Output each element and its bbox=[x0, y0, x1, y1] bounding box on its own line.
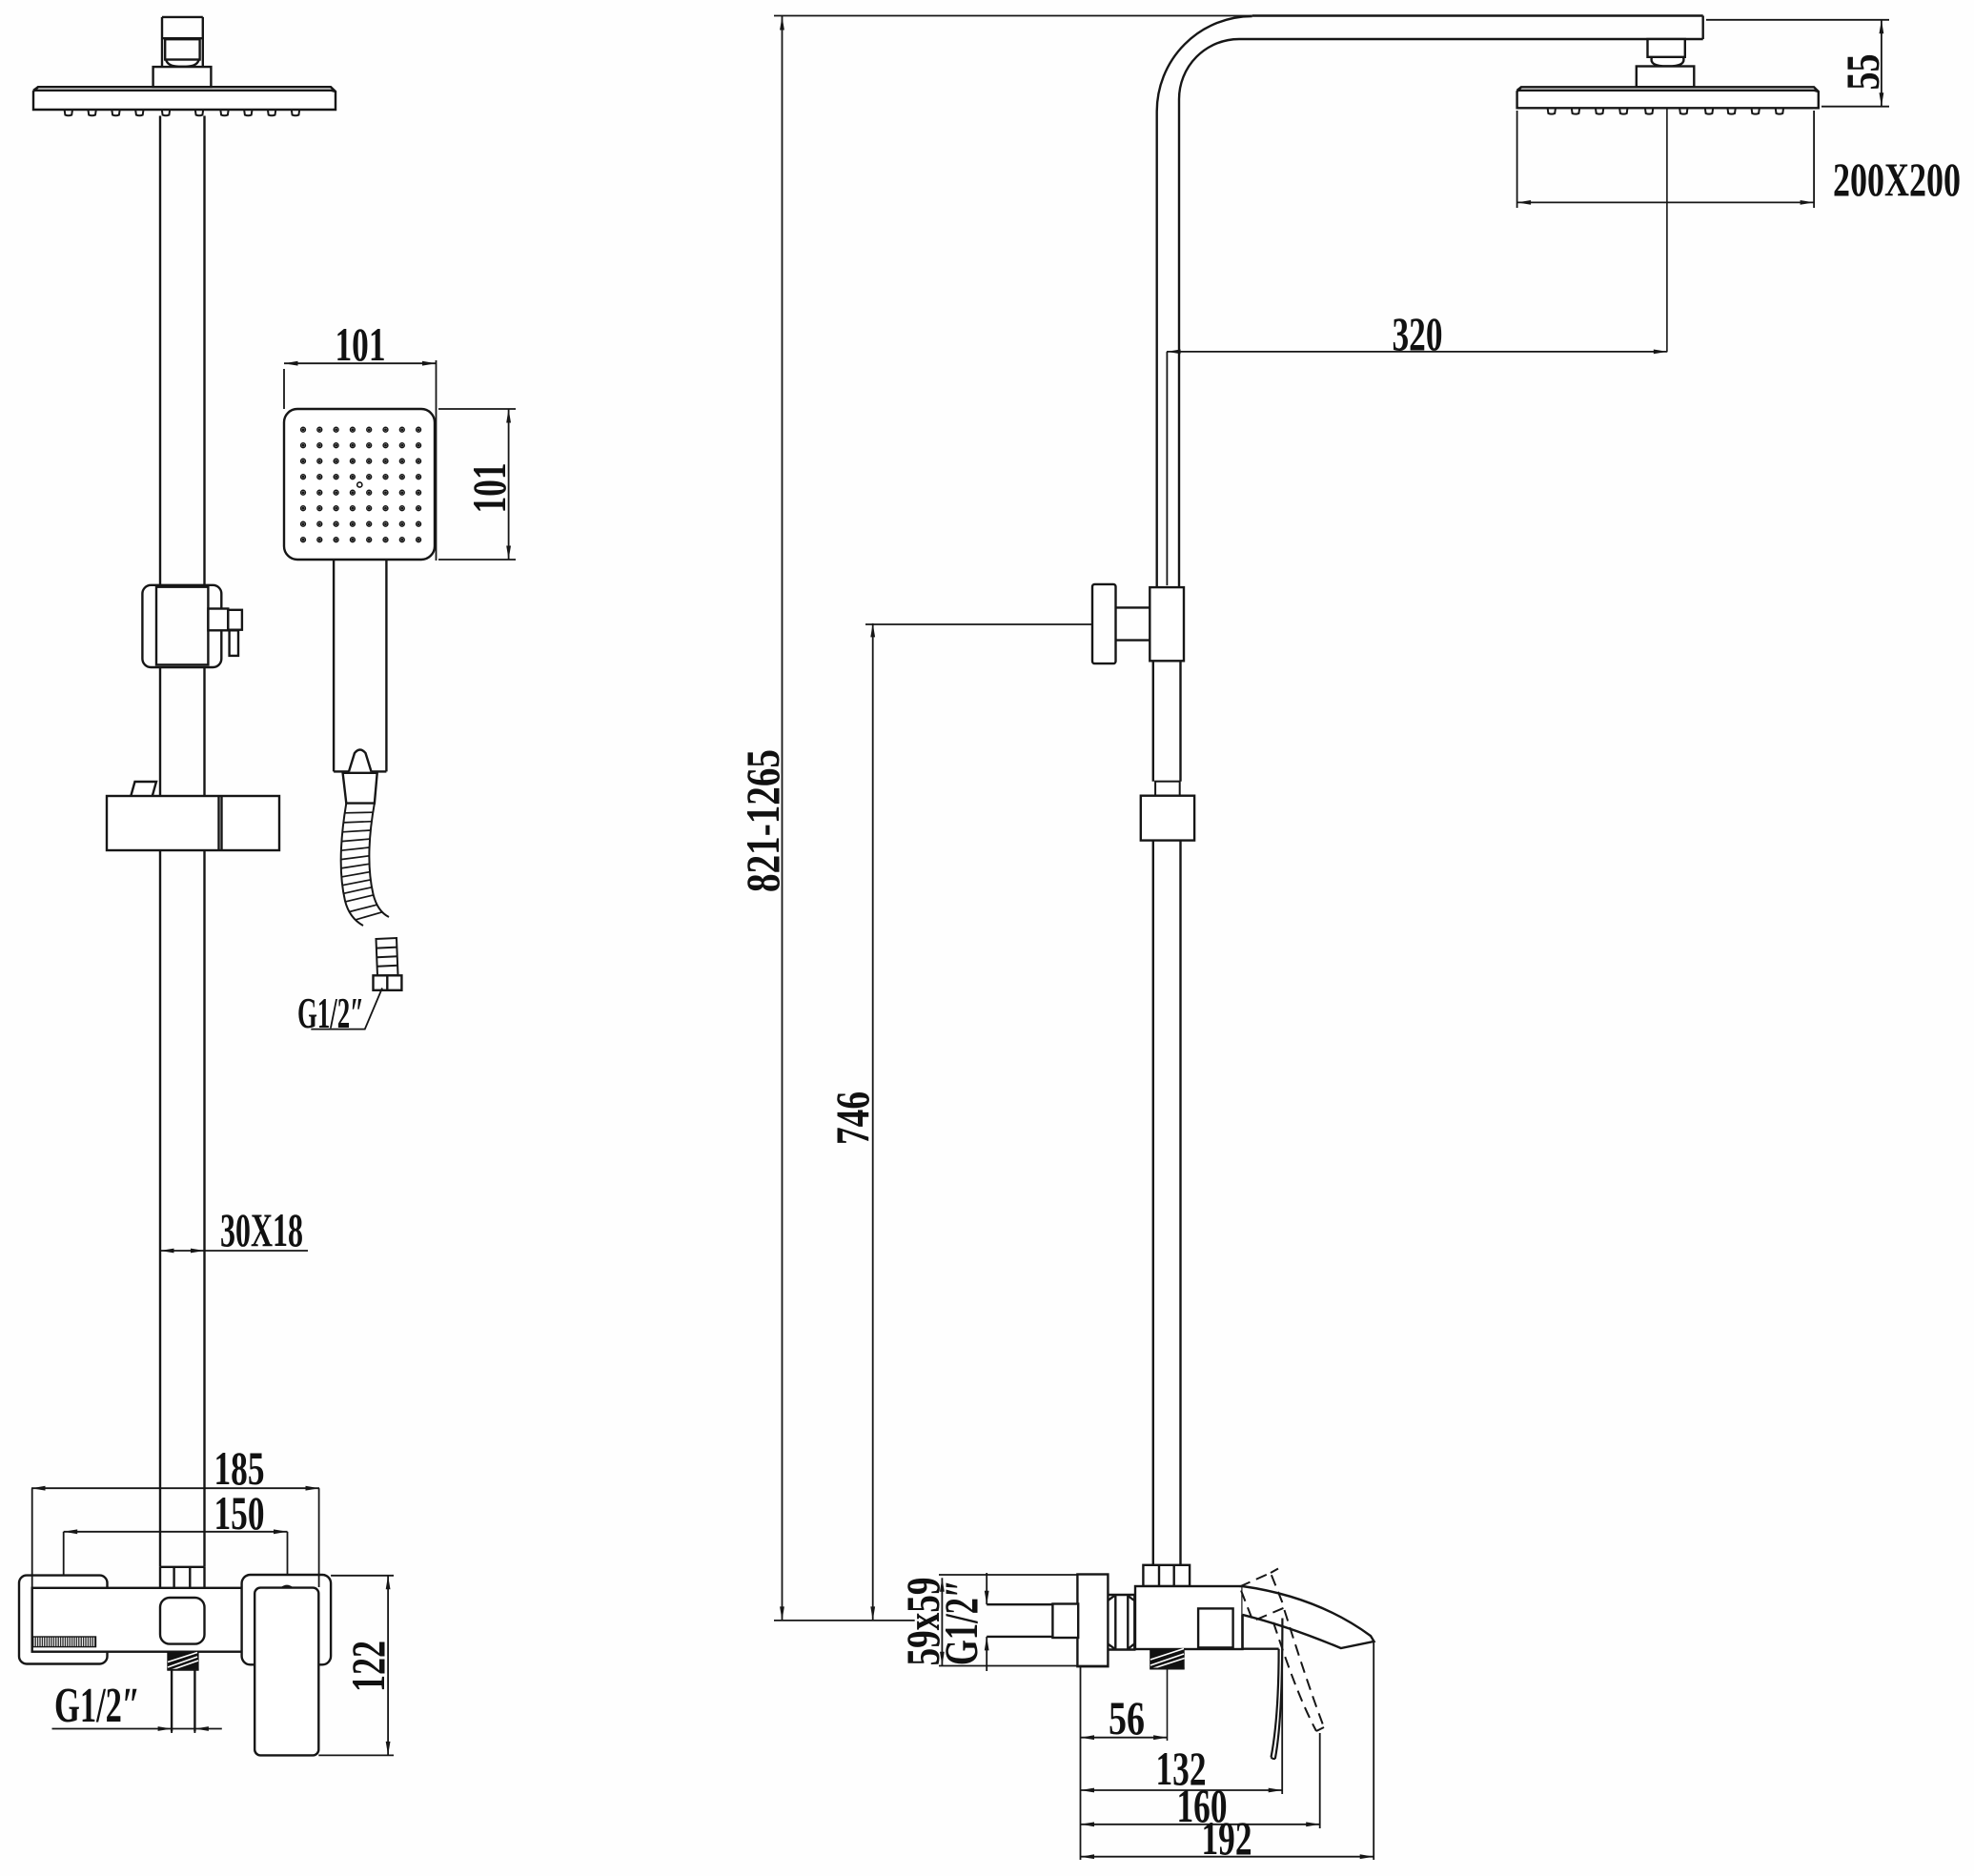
svg-text:G1/2″: G1/2″ bbox=[54, 1679, 140, 1733]
inlet knurled thread bbox=[33, 1637, 96, 1647]
dimension 821-1265 bbox=[774, 16, 1252, 1621]
hand shower slider holder (front view) bbox=[142, 585, 221, 667]
mixer body (front view) bbox=[32, 1588, 249, 1652]
wall bracket disc (side view) bbox=[1092, 584, 1150, 663]
arm top line continues bbox=[1252, 14, 1703, 16]
rain head nozzles (front view) bbox=[65, 110, 300, 115]
svg-text:30X18: 30X18 bbox=[220, 1203, 303, 1256]
svg-text:G1/2″: G1/2″ bbox=[934, 1580, 987, 1665]
dimension 200X200 bbox=[1517, 111, 1815, 208]
dimension G1/2 side bbox=[986, 1573, 987, 1671]
dimension G1/2 outlet line bbox=[52, 1725, 222, 1733]
outlet centerline (side view) bbox=[1167, 1669, 1169, 1742]
svg-text:821-1265: 821-1265 bbox=[736, 749, 789, 892]
handle pin detail bbox=[282, 1586, 293, 1588]
label G1/2 hose bbox=[311, 989, 382, 1030]
outlet thread (side view) bbox=[1150, 1649, 1185, 1669]
svg-text:G1/2″: G1/2″ bbox=[297, 989, 364, 1037]
waterfall spout (side view) bbox=[1243, 1586, 1374, 1648]
slider collar (side view) bbox=[1155, 782, 1180, 796]
soap dish on rail (front view) bbox=[107, 782, 279, 850]
riser pipe with bend (side view) bbox=[1157, 16, 1703, 588]
rain head connector (side view) bbox=[1637, 39, 1695, 87]
slider clamp knob bbox=[208, 609, 242, 656]
rain shower head plate (front view) bbox=[33, 87, 336, 110]
mixer pipe stub (front view) bbox=[160, 1567, 205, 1588]
svg-text:122: 122 bbox=[341, 1641, 395, 1692]
shower rail pipe (front view) bbox=[160, 116, 205, 1567]
mixer body (side view) bbox=[1135, 1586, 1243, 1649]
outlet tube (front view) bbox=[172, 1670, 194, 1732]
svg-text:200X200: 200X200 bbox=[1833, 153, 1961, 206]
shower hose bbox=[341, 804, 389, 926]
handle escutcheon plate (front view) bbox=[242, 1575, 332, 1664]
hex nut (side view) bbox=[1108, 1595, 1134, 1650]
svg-text:320: 320 bbox=[1393, 307, 1443, 360]
svg-text:101: 101 bbox=[462, 463, 516, 514]
diverter button bbox=[160, 1598, 205, 1644]
pipe union block (side view) bbox=[1150, 587, 1184, 661]
dimension 122 (mixer height) bbox=[318, 1576, 394, 1756]
mixer handle (front view) bbox=[254, 1588, 318, 1756]
spout outlet insert (side view) bbox=[1198, 1608, 1233, 1647]
hand shower handle bbox=[334, 560, 386, 771]
hand shower center hole bbox=[357, 482, 362, 487]
hose cone connector bbox=[343, 773, 377, 804]
hose end fitting bbox=[376, 938, 398, 976]
dimension 56 bbox=[1081, 1666, 1168, 1860]
inlet pipe (side view) bbox=[987, 1604, 1052, 1637]
hand shower head (front view) bbox=[284, 409, 435, 560]
dimension 160 bbox=[1081, 1733, 1320, 1828]
dimension 132 bbox=[1081, 1649, 1283, 1794]
rain head nozzles (side view) bbox=[1548, 108, 1784, 113]
svg-text:746: 746 bbox=[825, 1091, 879, 1145]
dimension 150 bbox=[64, 1532, 288, 1575]
dimension 55 bbox=[1706, 20, 1889, 107]
dimension 101 vertical (hand shower height) bbox=[438, 409, 516, 560]
svg-text:56: 56 bbox=[1109, 1691, 1145, 1744]
head centerline bbox=[1666, 108, 1668, 352]
dimension 192 bbox=[1081, 1641, 1374, 1860]
eccentric union (side view) bbox=[1052, 1604, 1078, 1639]
hose corrugation bbox=[341, 812, 382, 920]
lower pipe (side view) bbox=[1153, 661, 1181, 1565]
handle paddle dashed (open position) bbox=[1240, 1569, 1325, 1732]
dimension 320 bbox=[1167, 352, 1667, 585]
svg-text:150: 150 bbox=[214, 1486, 265, 1540]
dimension 59x59 bbox=[939, 1575, 1108, 1666]
svg-text:55: 55 bbox=[1836, 54, 1889, 91]
solid handle lever (side view) bbox=[1272, 1619, 1283, 1760]
svg-text:101: 101 bbox=[336, 317, 386, 371]
hand shower face dots bbox=[301, 427, 421, 541]
rain shower head plate (side view) bbox=[1517, 87, 1819, 108]
rain head mount flange (front view) bbox=[153, 67, 212, 87]
dimension 185 bbox=[31, 1488, 319, 1587]
dimension 30X18 (rail cross-section) bbox=[160, 1250, 308, 1252]
wall escutcheon plate (side view) bbox=[1077, 1575, 1108, 1667]
mixer union nut (side view) bbox=[1143, 1565, 1190, 1586]
svg-text:192: 192 bbox=[1202, 1811, 1252, 1865]
hose nut G1/2 bbox=[374, 975, 402, 990]
body step below spout bbox=[1243, 1615, 1279, 1649]
dimension 746 bbox=[865, 623, 1092, 1621]
outlet thread (front view) bbox=[167, 1652, 198, 1671]
dimension 101 horizontal (hand shower width) bbox=[284, 360, 437, 561]
shower arm connector (front view) bbox=[162, 17, 203, 67]
slider block (side view) bbox=[1141, 796, 1194, 841]
mixer left inlet block (front view) bbox=[19, 1576, 108, 1664]
